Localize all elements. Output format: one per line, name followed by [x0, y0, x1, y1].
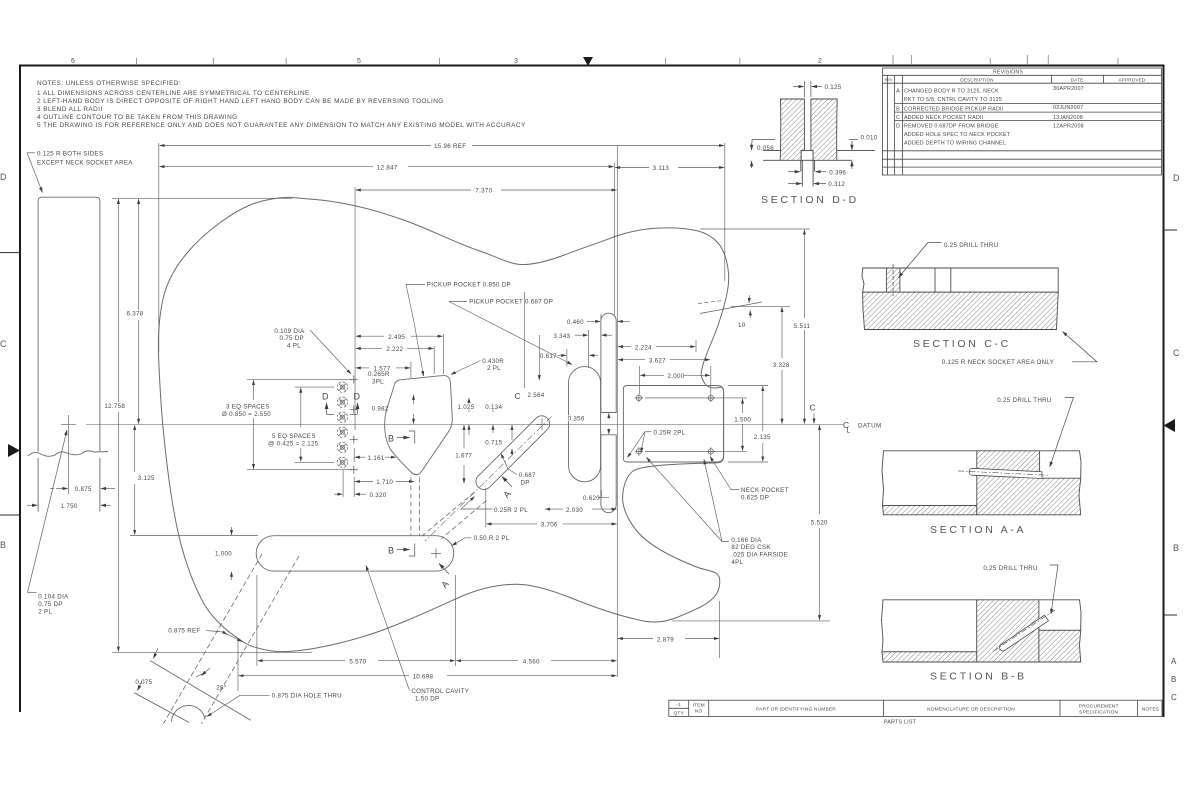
body outline: [158, 197, 728, 651]
svg-text:2.000: 2.000: [668, 373, 685, 380]
sheet border frame: [19, 65, 1165, 718]
svg-text:CONTROL CAVITY: CONTROL CAVITY: [411, 688, 469, 695]
1.500: [742, 399, 744, 413]
svg-text:82 DEG CSK: 82 DEG CSK: [731, 544, 771, 551]
svg-text:NOTES: NOTES: [1142, 707, 1160, 713]
svg-text:0.25R 2 PL: 0.25R 2 PL: [494, 507, 528, 514]
EQ spaces dims: [247, 379, 352, 469]
svg-text:EXCEPT NECK SOCKET AREA: EXCEPT NECK SOCKET AREA: [37, 160, 133, 167]
svg-text:0.075: 0.075: [135, 679, 152, 686]
svg-text:SPECIFICATION: SPECIFICATION: [1079, 710, 1118, 716]
svg-text:B: B: [388, 546, 394, 556]
2.135: [762, 386, 764, 431]
svg-text:APPROVED: APPROVED: [1118, 78, 1146, 83]
neck pocket screw holes: [635, 394, 715, 456]
svg-text:D: D: [896, 123, 900, 129]
svg-text:0.875 DIA HOLE THRU: 0.875 DIA HOLE THRU: [272, 693, 342, 700]
plug dashed centreline: [892, 264, 894, 296]
svg-text:12.758: 12.758: [104, 403, 125, 410]
svg-text:D: D: [322, 392, 329, 402]
right part: white above step, hatched below: [1039, 600, 1081, 631]
svg-text:NECK POCKET: NECK POCKET: [741, 487, 789, 494]
svg-text:C: C: [1171, 693, 1177, 702]
C section + 2.564: [524, 292, 814, 423]
svg-text:3 EQ SPACES: 3 EQ SPACES: [226, 404, 270, 411]
svg-text:ADDED DEPTH TO WIRING CHANNEL: ADDED DEPTH TO WIRING CHANNEL: [904, 140, 1006, 146]
0.320: [334, 493, 342, 495]
svg-text:2.030: 2.030: [566, 507, 583, 514]
svg-text:1.500: 1.500: [734, 417, 751, 424]
1.025 / 0.134 / 0.356 / 0.715 / 1.677 dims: [464, 398, 609, 483]
left border zone letters (partially cropped): [0, 172, 7, 550]
0.620 / 2.030 / 3.706 / 0.25R / 0.50R: [452, 454, 617, 546]
hidden jack drill (dashed): [164, 554, 300, 724]
svg-text:D: D: [354, 392, 361, 402]
hatched plug: [886, 268, 900, 292]
svg-text:SECTION A-A: SECTION A-A: [930, 524, 1026, 536]
left cavity part outline: [882, 451, 977, 506]
svg-text:DATUM: DATUM: [858, 423, 882, 430]
svg-text:3: 3: [514, 58, 518, 65]
svg-text:0.320: 0.320: [370, 492, 387, 499]
svg-text:30APR2007: 30APR2007: [1053, 86, 1084, 92]
svg-text:3.706: 3.706: [541, 522, 558, 529]
svg-text:0.687: 0.687: [519, 472, 536, 479]
svg-text:.025 DIA FARSIDE: .025 DIA FARSIDE: [731, 552, 788, 559]
svg-text:2.135: 2.135: [754, 434, 771, 441]
string ferrules (6): [337, 382, 347, 468]
svg-text:0.25R 2PL: 0.25R 2PL: [654, 429, 686, 436]
svg-text:0.875 REF: 0.875 REF: [168, 628, 200, 635]
hatched block left of slot: [780, 99, 804, 160]
svg-text:0.166 DIA: 0.166 DIA: [731, 537, 762, 544]
1.577: [356, 367, 369, 369]
svg-text:0.25 DRILL THRU: 0.25 DRILL THRU: [997, 397, 1051, 404]
CL datum symbol: [843, 420, 882, 435]
cutaway + horn + top edge: [289, 197, 729, 388]
svg-text:1.50 DP: 1.50 DP: [415, 696, 439, 703]
svg-text:15.96 REF: 15.96 REF: [434, 143, 466, 150]
border ticks left/right: [0, 230, 1177, 615]
svg-text:4PL: 4PL: [731, 559, 743, 566]
top bar: [862, 268, 1058, 292]
svg-text:5.511: 5.511: [794, 323, 811, 330]
top centre fold mark: [583, 57, 593, 66]
col ext lines: [342, 470, 344, 497]
svg-text:C: C: [515, 391, 521, 401]
svg-text:0.010: 0.010: [861, 135, 878, 142]
svg-text:ADDED HOLE SPEC TO NECK POCKET: ADDED HOLE SPEC TO NECK POCKET: [904, 132, 1011, 138]
2.000: [640, 374, 664, 376]
section letters B-B: [397, 431, 415, 556]
svg-text:C: C: [0, 339, 7, 349]
jack drill surface lines + hole arc: [134, 661, 251, 723]
section letters A-A: [439, 477, 512, 575]
svg-text:B: B: [388, 434, 394, 444]
svg-text:5.570: 5.570: [349, 658, 366, 665]
svg-text:PROCUREMENT: PROCUREMENT: [1079, 704, 1119, 710]
left cavity part outline: [882, 600, 977, 652]
0.875 REF + jack labels: [207, 566, 410, 717]
svg-text:QTY: QTY: [673, 711, 684, 717]
right border zone letters: [1171, 173, 1180, 702]
svg-text:2.222: 2.222: [386, 346, 403, 353]
ferrule pedestal: [801, 151, 813, 161]
svg-text:0.125 R BOTH SIDES: 0.125 R BOTH SIDES: [37, 151, 103, 158]
svg-text:SECTION B-B: SECTION B-B: [930, 671, 1027, 683]
svg-text:0.265R: 0.265R: [368, 371, 390, 378]
svg-text:0.50 R 2 PL: 0.50 R 2 PL: [474, 535, 510, 542]
section line A-A (dash-dot along slot axis): [425, 417, 552, 542]
right top white part: [1040, 451, 1081, 478]
svg-text:2 PL: 2 PL: [487, 365, 501, 372]
svg-text:5 THE DRAWING IS FOR REFERENC: 5 THE DRAWING IS FOR REFERENCE ONLY AND …: [37, 122, 526, 129]
svg-text:0.75 DP: 0.75 DP: [280, 335, 304, 342]
right border centre arrow: [1164, 419, 1176, 432]
svg-text:3 BLEND ALL RADII: 3 BLEND ALL RADII: [37, 106, 103, 113]
faint join lines between holes: [645, 397, 705, 399]
svg-text:0.982: 0.982: [372, 406, 389, 413]
control cavity: [256, 536, 454, 571]
bridge mounting screws (4 crosses): [350, 375, 358, 473]
12.847: [160, 166, 373, 168]
svg-text:@ 0.425 = 2.125: @ 0.425 = 2.125: [268, 441, 319, 448]
5.570: [258, 660, 345, 662]
svg-text:REVISIONS: REVISIONS: [993, 70, 1023, 76]
svg-text:SECTION D-D: SECTION D-D: [761, 194, 859, 206]
svg-text:0.875: 0.875: [75, 486, 92, 493]
neck pocket leaders/notes: [628, 432, 740, 542]
ferrule tab below: [800, 160, 802, 171]
0.430R note: [451, 361, 481, 375]
0.460 / 3.343 / 0.617 dims: [558, 314, 631, 368]
svg-text:DP: DP: [521, 480, 530, 487]
svg-text:2.224: 2.224: [635, 344, 652, 351]
svg-text:A: A: [896, 89, 900, 95]
leader 0.25 drill thru (B-B): [1050, 565, 1059, 614]
svg-text:3.343: 3.343: [553, 333, 570, 340]
svg-text:3.627: 3.627: [649, 358, 666, 365]
svg-text:0.134: 0.134: [485, 404, 502, 411]
1.710: [355, 481, 373, 483]
svg-text:0.25 DRILL THRU: 0.25 DRILL THRU: [983, 565, 1037, 572]
hidden wiring channel: bridge pocket to cavity (dashed verticals): [411, 478, 420, 536]
2.224: [618, 346, 631, 348]
svg-text:12APR2008: 12APR2008: [1053, 123, 1084, 129]
0.104 DIA note + leader: [28, 430, 68, 593]
svg-text:1.000: 1.000: [215, 550, 232, 557]
leader 0.125 R note (C-C): [1063, 332, 1098, 362]
A-A drill slot: [969, 468, 1042, 478]
svg-text:0.109 DIA: 0.109 DIA: [274, 328, 305, 335]
svg-text:CORRECTED BRIDGE PICKUP RADII: CORRECTED BRIDGE PICKUP RADII: [904, 107, 1003, 113]
angled wiring slot (0.687 DP): [476, 416, 550, 490]
leader 0.25 drill thru (C-C): [899, 243, 942, 278]
svg-text:0.620: 0.620: [583, 495, 600, 502]
svg-text:10: 10: [738, 322, 746, 329]
svg-text:Ø 0.850 = 2.550: Ø 0.850 = 2.550: [222, 411, 271, 418]
svg-text:0.75 DP: 0.75 DP: [38, 601, 62, 608]
svg-text:02JUN2007: 02JUN2007: [1053, 105, 1083, 111]
svg-text:REMOVED 0.687DP FROM BRIDGE: REMOVED 0.687DP FROM BRIDGE: [904, 123, 999, 129]
svg-text:0.125: 0.125: [825, 84, 842, 91]
svg-text:2 PL: 2 PL: [38, 608, 52, 615]
svg-text:B: B: [1171, 675, 1176, 684]
svg-text:B: B: [1173, 543, 1179, 553]
truss rod channel (upper + lower): [601, 313, 616, 512]
section letters D-D: [327, 403, 358, 414]
svg-text:0.356: 0.356: [568, 415, 585, 422]
inner verticals: [934, 268, 936, 292]
svg-text:0.125 R NECK SOCKET AREA ONLY: 0.125 R NECK SOCKET AREA ONLY: [942, 359, 1054, 366]
body edge: neck pocket mouth right side: [718, 387, 724, 462]
4.560: [456, 660, 518, 662]
side (edge) view of body, broken: [28, 197, 108, 511]
0.109 DIA note: [310, 330, 351, 374]
svg-text:2: 2: [818, 58, 822, 65]
hatched block right of slot: [811, 99, 837, 160]
svg-text:1.025: 1.025: [458, 404, 475, 411]
svg-text:1.161: 1.161: [368, 455, 385, 462]
svg-text:5 EQ SPACES: 5 EQ SPACES: [272, 433, 316, 440]
10.698: [239, 675, 409, 677]
notes text block: [37, 80, 526, 129]
svg-text:0.25 DRILL THRU: 0.25 DRILL THRU: [944, 242, 998, 249]
svg-text:6: 6: [71, 58, 75, 65]
neck pocket rounded rect: [623, 386, 723, 463]
svg-text:0.396: 0.396: [829, 169, 846, 176]
hole ext lines right: [645, 397, 747, 399]
svg-text:1.750: 1.750: [61, 503, 78, 510]
svg-text:PARTS LIST: PARTS LIST: [884, 720, 917, 726]
svg-text:DESCRIPTION: DESCRIPTION: [960, 78, 994, 83]
svg-text:PKT TO 5/8, CNTRL CAVITY TO 31: PKT TO 5/8, CNTRL CAVITY TO 3125: [904, 97, 1002, 103]
svg-text:5: 5: [357, 58, 361, 65]
svg-text:2.879: 2.879: [657, 636, 674, 643]
svg-text:2.564: 2.564: [528, 392, 545, 399]
0.125 R BOTH SIDES note: [37, 151, 133, 167]
bottom hatched strip: [882, 652, 1039, 662]
15.96 REF: [160, 145, 431, 147]
svg-text:PART OR IDENTIFYING NUMBER: PART OR IDENTIFYING NUMBER: [756, 707, 836, 713]
svg-text:0.617: 0.617: [540, 353, 557, 360]
1.161: [355, 456, 365, 458]
svg-text:0.104 DIA: 0.104 DIA: [38, 594, 69, 601]
bottom hatched slab: [863, 292, 1059, 329]
svg-text:2.495: 2.495: [388, 334, 405, 341]
svg-text:0.460: 0.460: [567, 319, 584, 326]
hidden wiring channel: slot to cavity (dashed): [422, 492, 487, 539]
middle hatched block: [977, 451, 1081, 515]
0.982: [413, 395, 415, 404]
svg-text:6.378: 6.378: [127, 310, 144, 317]
svg-text:ADDED NECK POCKET RADII: ADDED NECK POCKET RADII: [904, 115, 983, 121]
svg-text:1.710: 1.710: [376, 479, 393, 486]
side view dims 0.875 / 1.750: [27, 489, 115, 506]
svg-text:12.847: 12.847: [377, 164, 398, 171]
10 deg taper: [700, 302, 762, 314]
ext lines: [158, 143, 160, 352]
svg-text:4 PL: 4 PL: [287, 343, 301, 350]
svg-text:A: A: [439, 579, 450, 590]
svg-text:C: C: [1173, 348, 1180, 358]
bridge pickup pocket: [385, 376, 453, 475]
svg-text:7.370: 7.370: [475, 188, 492, 195]
2.222: [356, 347, 382, 349]
hole centre vertical: [68, 415, 70, 494]
svg-text:13JAN2008: 13JAN2008: [1053, 115, 1083, 121]
break squiggle: [28, 451, 108, 456]
svg-text:4 OUTLINE CONTOUR TO BE TAKEN: 4 OUTLINE CONTOUR TO BE TAKEN FROM THIS …: [37, 114, 238, 121]
svg-text:SECTION C-C: SECTION C-C: [913, 338, 1011, 350]
svg-text:10.698: 10.698: [413, 673, 434, 680]
3.113: [615, 167, 649, 169]
neck pickup pocket (capsule): [569, 367, 601, 482]
svg-text:1.677: 1.677: [455, 453, 472, 460]
svg-text:NOMENCLATURE OR DESCRIPTION: NOMENCLATURE OR DESCRIPTION: [927, 707, 1015, 713]
svg-text:3PL: 3PL: [372, 378, 384, 385]
svg-text:2 LEFT-HAND BODY IS DIRECT OP: 2 LEFT-HAND BODY IS DIRECT OPPOSITE OF R…: [37, 98, 444, 105]
svg-text:B: B: [0, 540, 6, 550]
svg-text:0.056: 0.056: [757, 145, 774, 152]
svg-text:CHANGED BODY R TO 3125, NECK: CHANGED BODY R TO 3125, NECK: [904, 89, 999, 95]
svg-text:3.125: 3.125: [138, 475, 155, 482]
svg-text:DATE: DATE: [1071, 78, 1084, 83]
svg-text:0.625 DP: 0.625 DP: [741, 495, 769, 502]
svg-text:1 ALL DIMENSIONS ACROSS CENTE: 1 ALL DIMENSIONS ACROSS CENTERLINE ARE S…: [37, 90, 310, 97]
svg-text:PICKUP POCKET 0.687 DP: PICKUP POCKET 0.687 DP: [469, 298, 553, 305]
svg-text:PICKUP POCKET 0.850 DP: PICKUP POCKET 0.850 DP: [427, 282, 511, 289]
pickup pocket labels: [406, 285, 723, 377]
svg-text:0.715: 0.715: [485, 440, 502, 447]
svg-text:0.312: 0.312: [828, 181, 845, 188]
svg-text:3.113: 3.113: [653, 165, 670, 172]
ext verticals for 2.495/2.222: [442, 334, 444, 374]
svg-text:28°: 28°: [216, 685, 226, 692]
svg-text:5.520: 5.520: [811, 520, 828, 527]
centreline (datum): [86, 423, 843, 425]
svg-text:ITEM: ITEM: [693, 702, 705, 708]
svg-text:REV: REV: [885, 78, 893, 82]
svg-text:L: L: [847, 428, 851, 435]
bottom hatched strip under cavity: [883, 506, 977, 515]
svg-text:D: D: [0, 172, 7, 182]
svg-text:NO: NO: [695, 708, 703, 714]
3.627: [618, 359, 645, 361]
2.495: [356, 335, 384, 337]
top edge zone tick marks: [137, 55, 1119, 64]
parts list table: [669, 700, 1162, 716]
svg-text:A: A: [501, 489, 512, 500]
svg-text:4.560: 4.560: [523, 658, 540, 665]
svg-text:C: C: [896, 115, 900, 121]
revisions table: [883, 68, 1162, 175]
svg-text:B: B: [896, 107, 900, 113]
leader 0.25 drill thru (A-A): [1050, 398, 1074, 468]
2.879: [618, 638, 653, 640]
B-B drill slot (angled): [1000, 615, 1049, 651]
middle hatched block: [977, 600, 1039, 662]
left border centre arrow: [8, 444, 20, 457]
svg-text:C: C: [810, 403, 816, 413]
svg-text:A: A: [1171, 657, 1177, 666]
svg-text:3.328: 3.328: [773, 362, 790, 369]
7.370: [356, 189, 471, 191]
svg-text:D: D: [1173, 173, 1180, 183]
bottom line extensions: [763, 159, 780, 161]
svg-text:0.430R: 0.430R: [482, 358, 504, 365]
svg-text:-1: -1: [676, 702, 681, 708]
section D-D dims: [752, 81, 858, 184]
svg-text:NOTES: UNLESS OTHERWISE SPECIF: NOTES: UNLESS OTHERWISE SPECIFIED:: [37, 80, 181, 87]
